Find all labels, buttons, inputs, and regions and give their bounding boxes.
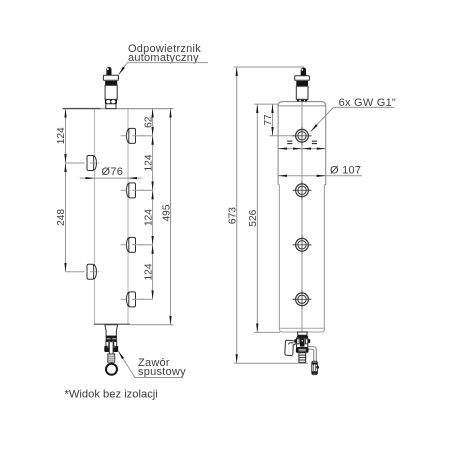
svg-text:124: 124: [56, 127, 67, 144]
svg-text:*Widok bez izolacji: *Widok bez izolacji: [65, 389, 158, 401]
svg-text:124: 124: [143, 154, 154, 171]
svg-text:Ø 107: Ø 107: [330, 165, 361, 177]
svg-text:77: 77: [263, 114, 274, 126]
svg-text:Ø76: Ø76: [102, 166, 124, 178]
svg-text:248: 248: [56, 209, 67, 226]
svg-text:495: 495: [161, 204, 172, 221]
svg-text:automatyczny: automatyczny: [128, 52, 199, 64]
svg-text:124: 124: [143, 209, 154, 226]
svg-text:526: 526: [248, 209, 259, 226]
svg-text:673: 673: [227, 207, 238, 224]
svg-text:62: 62: [143, 116, 154, 128]
svg-text:124: 124: [143, 263, 154, 280]
svg-text:spustowy: spustowy: [138, 366, 186, 378]
